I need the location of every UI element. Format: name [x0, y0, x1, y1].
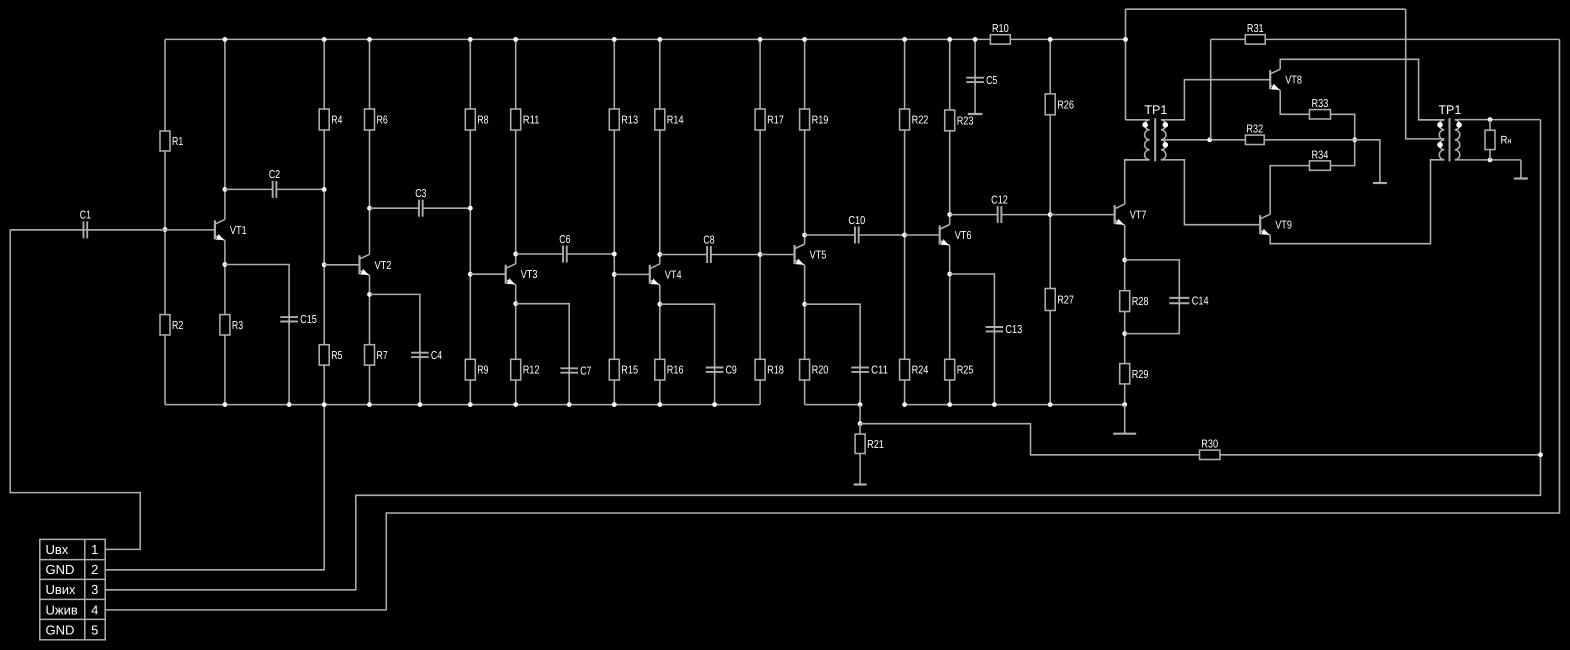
svg-text:VT5: VT5: [810, 250, 827, 262]
svg-text:C14: C14: [1192, 295, 1209, 307]
svg-text:C3: C3: [415, 188, 426, 200]
wire R17 R18 column: [759, 39, 761, 404]
node R7 ground: [367, 402, 372, 407]
svg-text:R12: R12: [523, 365, 540, 377]
svg-text:R6: R6: [377, 115, 388, 127]
node R5 ground: [322, 402, 327, 407]
wire C8 right: [711, 254, 760, 256]
node R8 rail: [468, 37, 473, 42]
top power rail: [165, 38, 1126, 40]
wire C9 bottom: [714, 372, 716, 405]
wire VT2 collector: [369, 39, 371, 254]
ground R21: [854, 483, 867, 485]
wire R32 right lead: [1264, 139, 1355, 141]
wire C9 branch: [660, 304, 715, 367]
wire R13 R15 column: [613, 39, 615, 404]
transistor VT5: [795, 244, 827, 265]
node R9 ground: [468, 402, 473, 407]
ground C5: [974, 82, 976, 114]
resistor R28: [1120, 291, 1130, 312]
capacitor C9: [714, 365, 716, 374]
node C9 ground: [712, 402, 717, 407]
wire C15 bottom: [288, 322, 290, 405]
svg-text:R31: R31: [1247, 23, 1264, 35]
node R28 bottom: [1122, 331, 1127, 336]
outer top wire: [1126, 8, 1406, 10]
resistor R22: [900, 109, 910, 130]
svg-text:R4: R4: [331, 115, 343, 127]
transformer TP1 driver: [1142, 103, 1168, 161]
wire R8 R9 column: [469, 39, 471, 404]
svg-text:C8: C8: [703, 234, 714, 246]
wire VT3 collector: [515, 39, 517, 263]
node VT2 emitter: [367, 292, 372, 297]
svg-text:C15: C15: [300, 314, 317, 326]
node VT1 emitter: [223, 262, 228, 267]
resistor R19: [800, 109, 810, 130]
svg-text:R18: R18: [767, 365, 784, 377]
wire C11 bottom: [859, 372, 861, 405]
capacitor C15: [288, 315, 290, 324]
svg-text:R25: R25: [957, 365, 974, 377]
node rail end TP1: [1123, 37, 1128, 42]
node R32 R33 R34 junction: [1352, 137, 1357, 142]
wire VT4 emitter: [659, 285, 661, 405]
wire C7 bottom: [568, 373, 570, 405]
wire C13 branch: [950, 274, 995, 327]
svg-text:R23: R23: [957, 115, 974, 127]
resistor R6: [365, 109, 375, 130]
node R22 rail: [902, 37, 907, 42]
wire R26 R27 column: [1049, 39, 1051, 404]
transistor VT1: [215, 219, 247, 240]
svg-text:C4: C4: [431, 350, 443, 362]
svg-text:Rн: Rн: [1501, 135, 1512, 147]
wire R33 right: [1331, 114, 1355, 140]
wire VT3 base: [470, 273, 505, 275]
node R12 ground: [513, 402, 518, 407]
svg-text:R28: R28: [1132, 296, 1149, 308]
wire VT8 collector: [1280, 59, 1444, 120]
resistor R10: [990, 35, 1010, 44]
node VT1 collector rail: [223, 37, 228, 42]
ground load: [1520, 160, 1522, 179]
wire C6 left: [516, 253, 563, 255]
svg-text:R8: R8: [477, 115, 488, 127]
svg-text:R5: R5: [331, 350, 342, 362]
svg-text:R22: R22: [912, 115, 929, 127]
wire R22 R24 column: [904, 39, 906, 404]
svg-text:GND: GND: [46, 562, 75, 577]
node base VT3: [468, 272, 473, 277]
resistor R2: [160, 315, 170, 335]
wire C10 left: [805, 234, 855, 236]
capacitor C14: [1178, 295, 1180, 306]
node base VT4: [612, 272, 617, 277]
resistor R20: [800, 359, 810, 380]
wire C4 branch: [370, 294, 420, 352]
wire VT2 base: [324, 264, 359, 266]
wire outer top to TP2 center tap: [1406, 9, 1445, 139]
node R24 ground: [902, 402, 907, 407]
node R15 ground: [612, 402, 617, 407]
resistor R27: [1045, 289, 1055, 311]
wire TP1 center tap to R32: [1161, 139, 1246, 141]
node base VT1: [163, 227, 168, 232]
resistor Rn: [1485, 130, 1495, 149]
svg-text:3: 3: [91, 582, 98, 597]
bottom ground rail segment 1: [165, 404, 760, 406]
svg-text:GND: GND: [46, 622, 75, 637]
node base VT2: [322, 262, 327, 267]
resistor R1: [160, 131, 170, 151]
node C12 tap: [947, 212, 952, 217]
wire VT8 emitter to R33: [1280, 90, 1309, 114]
node C6 tap: [513, 252, 518, 257]
wire VT1 emitter: [224, 240, 226, 404]
capacitor C8: [706, 246, 708, 263]
wire pin1 to input: [10, 230, 140, 550]
node R27 ground: [1048, 402, 1053, 407]
resistor R26: [1045, 94, 1055, 115]
resistor R32: [1245, 135, 1264, 144]
svg-text:VT1: VT1: [230, 225, 247, 237]
ground bias network: [1373, 182, 1387, 184]
transistor VT4: [650, 264, 682, 285]
capacitor C5: [974, 75, 976, 84]
node R25 ground: [947, 402, 952, 407]
svg-text:5: 5: [91, 622, 98, 637]
svg-text:R27: R27: [1057, 295, 1074, 307]
svg-text:C1: C1: [80, 210, 91, 222]
wire pin2 GND: [105, 405, 324, 570]
node C3 tap: [367, 206, 372, 211]
svg-text:R7: R7: [377, 350, 388, 362]
node Rn top: [1488, 117, 1493, 122]
wire VT6 emitter: [949, 246, 951, 405]
svg-text:VT3: VT3: [521, 269, 538, 281]
wire pin3 Uvih: [105, 120, 1540, 590]
capacitor C3: [418, 200, 420, 217]
svg-text:Uвих: Uвих: [46, 582, 77, 597]
wire C14 loop bottom: [1125, 303, 1180, 333]
transistor VT7: [1115, 204, 1147, 225]
transistor VT6: [940, 225, 972, 246]
wire to R21: [859, 405, 861, 424]
resistor R16: [655, 359, 665, 380]
svg-text:TP1: TP1: [1438, 103, 1461, 117]
wire C5 top: [974, 39, 976, 77]
svg-text:C7: C7: [580, 365, 591, 377]
node VT7 emitter R28: [1122, 258, 1127, 263]
node Rn bottom: [1488, 158, 1493, 163]
node R13 rail: [612, 37, 617, 42]
transistor VT9: [1260, 214, 1292, 235]
wire VT1 collector: [224, 39, 226, 219]
svg-text:R20: R20: [812, 365, 829, 377]
resistor R15: [609, 359, 619, 380]
svg-text:R34: R34: [1312, 149, 1329, 161]
svg-text:R33: R33: [1312, 98, 1329, 110]
wire C12 right: [1001, 214, 1050, 216]
resistor R12: [511, 359, 521, 380]
svg-text:C11: C11: [871, 365, 888, 377]
resistor R9: [465, 359, 475, 380]
svg-text:VT4: VT4: [665, 269, 682, 281]
node C11 R20 junction: [858, 402, 863, 407]
resistor R30: [1200, 450, 1220, 459]
resistor R23: [945, 110, 955, 131]
svg-text:4: 4: [91, 602, 98, 617]
svg-text:2: 2: [91, 562, 98, 577]
resistor R31: [1245, 35, 1265, 44]
node C4 ground: [418, 402, 423, 407]
svg-text:R10: R10: [992, 23, 1009, 35]
wire VT1 base: [10, 229, 215, 231]
node R31 tap junction: [1207, 137, 1212, 142]
wire C11 branch: [805, 304, 861, 367]
node R16 ground: [657, 402, 662, 407]
wire rail to TP1 primary top: [1125, 9, 1127, 120]
svg-text:1: 1: [91, 542, 98, 557]
svg-text:R15: R15: [621, 365, 638, 377]
node C3 right: [468, 206, 473, 211]
svg-text:R2: R2: [172, 320, 183, 332]
node C15 ground: [287, 402, 292, 407]
capacitor C13: [993, 325, 995, 334]
capacitor C2: [272, 181, 274, 198]
svg-text:TP1: TP1: [1144, 103, 1167, 117]
node R4 rail: [322, 37, 327, 42]
wire TP1 primary top lead: [1126, 119, 1150, 121]
resistor R33: [1309, 110, 1330, 119]
node R11 rail: [513, 37, 518, 42]
capacitor C1: [83, 221, 85, 238]
node R21 top: [858, 421, 863, 426]
svg-text:VT2: VT2: [375, 260, 392, 272]
resistor R24: [900, 359, 910, 380]
wire VT2 emitter: [369, 275, 371, 404]
wire C8 left: [660, 254, 707, 256]
wire VT9 emitter to TP2: [1270, 160, 1444, 244]
node C10 tap: [802, 233, 807, 238]
resistor R29: [1120, 364, 1130, 384]
wire VT5 emitter: [804, 265, 806, 405]
svg-text:R3: R3: [232, 320, 243, 332]
transistor VT3: [506, 264, 538, 285]
node VT4 emitter: [657, 302, 662, 307]
wire TP2 primary top lead: [1419, 119, 1445, 121]
ground main: [1124, 405, 1126, 434]
svg-text:C6: C6: [559, 234, 570, 246]
wire C10 right: [859, 234, 905, 236]
node R17 rail: [758, 37, 763, 42]
wire R34 right: [1331, 140, 1355, 166]
resistor R21: [855, 434, 865, 453]
wire VT9 collector to R34: [1270, 166, 1309, 215]
svg-text:R17: R17: [767, 115, 784, 127]
node R23 rail: [947, 37, 952, 42]
wire TP2 secondary bottom: [1455, 159, 1521, 161]
resistor R7: [365, 345, 375, 365]
svg-text:R19: R19: [812, 115, 829, 127]
connector table: [40, 539, 105, 639]
wire C13 bottom: [993, 332, 995, 405]
wire C2 right: [276, 188, 324, 190]
wire VT3 emitter: [515, 285, 517, 405]
resistor R14: [655, 109, 665, 130]
node R3 ground: [223, 402, 228, 407]
wire VT5 base: [760, 254, 795, 256]
node VT3 emitter: [513, 301, 518, 306]
wire C12 left: [950, 214, 998, 216]
svg-text:VT6: VT6: [955, 230, 972, 242]
node R26 rail: [1048, 37, 1053, 42]
capacitor C7: [568, 366, 570, 375]
wire VT4 collector: [659, 39, 661, 264]
wire VT5 collector: [804, 39, 806, 244]
node main ground rail end: [1122, 402, 1127, 407]
resistor R18: [755, 359, 765, 380]
transistor VT2: [360, 254, 392, 275]
wire VT7 base: [1050, 214, 1115, 216]
capacitor C4: [419, 350, 421, 359]
wire TP1 secondary top to VT8 base: [1161, 80, 1270, 120]
wire TP1 primary bottom lead: [1126, 159, 1150, 161]
svg-text:R16: R16: [667, 365, 684, 377]
capacitor C1 lead: [10, 229, 83, 231]
node C2 right: [322, 187, 327, 192]
svg-text:R30: R30: [1201, 439, 1218, 451]
node base VT5: [758, 252, 763, 257]
wire VT4 base: [614, 273, 650, 275]
node C8 tap: [657, 252, 662, 257]
wire C7 branch: [516, 304, 570, 369]
resistor R4: [319, 109, 329, 130]
svg-text:C12: C12: [991, 194, 1008, 206]
svg-text:R29: R29: [1132, 369, 1149, 381]
node C7 ground: [567, 402, 572, 407]
resistor R13: [609, 109, 619, 130]
svg-text:Uвх: Uвх: [46, 542, 69, 557]
resistor R8: [465, 109, 475, 130]
wire R31 feed line: [1211, 38, 1560, 40]
svg-text:R21: R21: [867, 439, 884, 451]
wire R1 R2 column: [164, 39, 166, 404]
svg-text:R14: R14: [667, 115, 684, 127]
resistor R17: [755, 109, 765, 130]
capacitor C11: [859, 365, 861, 374]
svg-text:R32: R32: [1246, 124, 1263, 136]
svg-text:R13: R13: [621, 115, 638, 127]
wire VT7 emitter: [1124, 225, 1126, 405]
wire C14 loop: [1125, 260, 1180, 298]
svg-text:R24: R24: [912, 365, 929, 377]
node VT6 emitter: [947, 272, 952, 277]
wire VT6 base: [905, 234, 940, 236]
svg-text:C10: C10: [848, 215, 865, 227]
wire R21: [859, 424, 861, 484]
wire R21 node to R30: [860, 424, 1540, 455]
bottom ground rail segment 3: [905, 404, 1125, 406]
wire C4 bottom: [419, 357, 421, 404]
capacitor C6: [562, 246, 564, 263]
svg-text:Uжив: Uжив: [46, 602, 78, 617]
transformer TP1 output: [1437, 103, 1462, 161]
node C12 right: [1048, 212, 1053, 217]
wire C15 branch: [225, 265, 289, 317]
resistor R34: [1309, 161, 1330, 170]
wire R4 R5 column: [323, 39, 325, 404]
node R19 rail: [802, 37, 807, 42]
wire junction to ground: [1355, 140, 1380, 183]
resistor R25: [945, 359, 955, 380]
node C5 rail: [973, 37, 978, 42]
bottom ground rail segment 2: [805, 404, 861, 406]
svg-text:R9: R9: [477, 365, 488, 377]
capacitor C12: [997, 206, 999, 223]
svg-text:R1: R1: [172, 136, 183, 148]
node R6 rail: [367, 37, 372, 42]
node R30 output junction: [1538, 452, 1543, 457]
svg-text:C9: C9: [726, 365, 737, 377]
wire C2 left: [225, 188, 273, 190]
wire VT7 collector: [1125, 160, 1150, 204]
svg-text:VT9: VT9: [1275, 220, 1292, 232]
transistor VT8: [1270, 69, 1302, 90]
resistor R5: [319, 345, 329, 365]
wire C3 right: [423, 207, 471, 209]
svg-text:R11: R11: [523, 115, 540, 127]
svg-text:VT8: VT8: [1285, 75, 1302, 87]
node R14 rail: [657, 37, 662, 42]
svg-text:C2: C2: [269, 169, 280, 181]
capacitor C1 lead right: [87, 229, 165, 231]
svg-text:VT7: VT7: [1130, 210, 1147, 222]
node C6 right: [612, 252, 617, 257]
svg-text:R26: R26: [1057, 99, 1074, 111]
wire TP1 secondary bottom to VT9 base: [1161, 160, 1260, 225]
svg-text:C5: C5: [986, 75, 997, 87]
node VT5 emitter: [802, 302, 807, 307]
capacitor C10: [854, 227, 856, 244]
wire C3 left: [370, 207, 419, 209]
resistor R11: [511, 109, 521, 130]
wire VT6 collector: [949, 39, 951, 224]
node C2 tap: [223, 187, 228, 192]
node C13 ground: [992, 402, 997, 407]
wire C6 right: [567, 253, 615, 255]
resistor R3: [220, 315, 230, 335]
wire R31 vertical: [1210, 39, 1212, 139]
wire Rn column: [1489, 120, 1491, 160]
node base VT6: [902, 233, 907, 238]
wire TP2 secondary top: [1455, 119, 1541, 121]
svg-text:C13: C13: [1005, 324, 1022, 336]
